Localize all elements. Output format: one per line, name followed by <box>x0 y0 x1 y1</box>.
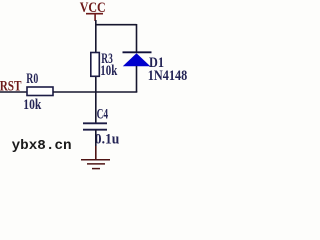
ground bar 2 <box>87 163 105 165</box>
resistor R0 body <box>27 87 53 96</box>
wire main vertical from VCC to junction <box>95 20 97 92</box>
wire capacitor C4 to ground <box>95 130 97 146</box>
resistor R3 value 10k <box>100 63 117 79</box>
resistor R3 designator <box>101 51 113 67</box>
wire diode branch vertical lower <box>136 66 138 92</box>
svg-text:R0: R0 <box>26 71 38 87</box>
watermark ybx8.cn <box>12 138 72 154</box>
diode D1 designator <box>149 55 164 71</box>
wire diode branch vertical upper <box>136 24 138 53</box>
svg-text:C4: C4 <box>97 107 109 123</box>
diode D1 value 1N4148 <box>148 68 188 84</box>
wire junction to capacitor C4 <box>95 92 97 123</box>
wire top branch horizontal to diode <box>96 24 137 26</box>
svg-text:1N4148: 1N4148 <box>148 68 188 84</box>
resistor R3 body <box>91 53 100 77</box>
capacitor C4 bottom plate <box>83 129 107 131</box>
ground bar 1 <box>81 159 110 161</box>
svg-text:ybx8.cn: ybx8.cn <box>12 138 72 154</box>
capacitor C4 top plate <box>83 122 107 124</box>
net label RST <box>0 78 21 94</box>
svg-text:10k: 10k <box>23 97 42 113</box>
resistor R0 value 10k <box>23 97 42 113</box>
ground stub <box>95 146 97 160</box>
capacitor C4 designator <box>97 107 109 123</box>
diode D1 cathode bar <box>123 51 152 53</box>
resistor R0 designator <box>26 71 38 87</box>
wire RST to resistor R0 <box>0 91 27 93</box>
VCC power bar symbol <box>86 14 103 21</box>
svg-text:10k: 10k <box>100 63 117 79</box>
diode D1 triangle <box>123 53 151 66</box>
capacitor C4 value 0.1u <box>95 132 120 148</box>
wire resistor R0 to junction <box>53 91 96 93</box>
power net VCC label <box>80 0 106 16</box>
wire bottom branch horizontal from junction to diode <box>96 91 138 93</box>
svg-text:0.1u: 0.1u <box>95 132 120 148</box>
ground bar 3 <box>92 168 100 170</box>
